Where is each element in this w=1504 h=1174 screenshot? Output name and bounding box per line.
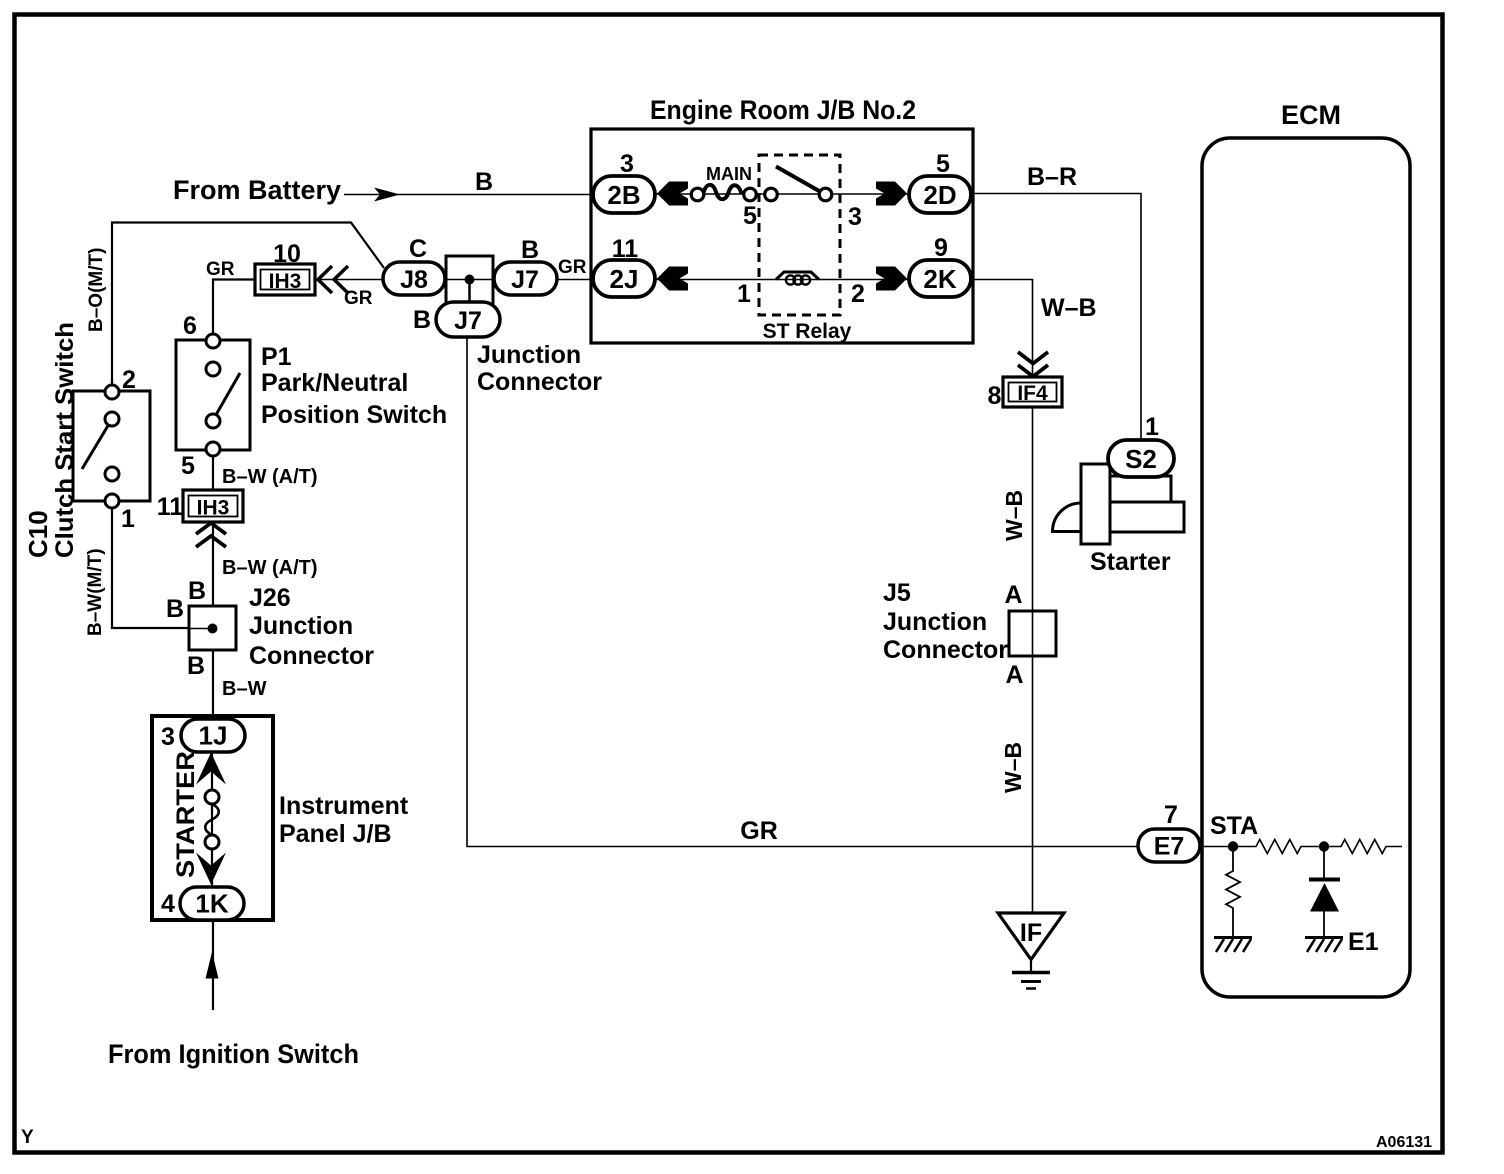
junction connector J7 bottom [436, 302, 500, 337]
starter body upper block [1110, 476, 1171, 502]
svg-text:Connector: Connector [249, 642, 374, 670]
svg-text:GR: GR [740, 817, 778, 845]
relay contact [765, 167, 832, 201]
svg-text:B: B [187, 652, 205, 680]
connector 2J [593, 260, 655, 297]
svg-text:GR: GR [206, 259, 235, 280]
svg-text:E1: E1 [1348, 928, 1379, 956]
svg-text:Clutch Start Switch: Clutch Start Switch [51, 322, 79, 558]
svg-text:From Ignition Switch: From Ignition Switch [108, 1039, 359, 1069]
svg-text:Instrument: Instrument [279, 792, 409, 820]
ground triangle IF [998, 913, 1064, 960]
clutch switch pin 2 terminal [105, 385, 119, 399]
junction drop wire [468, 280, 471, 304]
svg-text:2B: 2B [607, 180, 640, 210]
svg-text:8: 8 [988, 382, 1002, 410]
node STA [1228, 841, 1238, 851]
node E1 branch [1319, 841, 1329, 851]
connector IH3 pin 10 [255, 264, 315, 295]
instrument panel J/B box [152, 716, 273, 920]
svg-text:P1: P1 [261, 343, 292, 371]
svg-text:J5: J5 [883, 579, 911, 607]
svg-text:A06131: A06131 [1376, 1134, 1432, 1151]
clutch start switch C10 box [73, 391, 150, 501]
svg-text:From Battery: From Battery [173, 175, 341, 205]
ECM internal line with resistors [1200, 840, 1402, 854]
G4: right side (ECM, starter, J5, IF) [883, 100, 1410, 997]
svg-text:J8: J8 [400, 266, 428, 294]
svg-text:GR: GR [344, 288, 373, 309]
wire stub into J26 [189, 628, 213, 630]
svg-text:B: B [166, 595, 184, 623]
svg-text:Position Switch: Position Switch [261, 401, 447, 429]
harness chevrons left of J8 [318, 266, 348, 293]
wire From Battery to 2B [344, 194, 593, 196]
svg-text:Junction: Junction [249, 612, 353, 640]
svg-text:STA: STA [1210, 812, 1258, 840]
P1 contact lower [206, 414, 220, 428]
svg-text:3: 3 [161, 723, 175, 751]
svg-text:E7: E7 [1154, 833, 1185, 861]
junction connector square [446, 256, 493, 304]
wire J7 to 2J [557, 279, 593, 281]
wire IH3-10 to J8 [315, 279, 383, 281]
svg-text:3: 3 [620, 150, 634, 178]
svg-text:J26: J26 [249, 584, 291, 612]
svg-text:STARTER: STARTER [172, 751, 200, 878]
svg-text:Junction: Junction [477, 341, 581, 369]
connector 2D [909, 176, 971, 213]
wire 2K down to IF ground (W-B) [971, 280, 1033, 914]
svg-text:7: 7 [1164, 801, 1178, 829]
connector E7 [1138, 829, 1200, 862]
svg-text:3: 3 [848, 203, 862, 231]
battery feed arrowhead [374, 188, 400, 202]
clutch switch contact lower [105, 467, 119, 481]
svg-text:Panel J/B: Panel J/B [279, 820, 392, 848]
junction dot [465, 275, 475, 285]
fat arrow up [196, 753, 226, 785]
svg-text:Starter: Starter [1090, 548, 1171, 576]
starter solenoid tall block [1081, 464, 1110, 544]
connector 1K [180, 887, 244, 920]
svg-text:2: 2 [851, 280, 865, 308]
fat arrow down [196, 853, 226, 885]
junction connector J8 [383, 262, 445, 295]
wire row 2 (GR to W-B) [655, 279, 909, 281]
svg-text:B–R: B–R [1027, 163, 1077, 191]
arrow into 2J [657, 267, 688, 291]
ground below resistor [1214, 938, 1252, 953]
P1 pin 5 terminal [206, 442, 220, 456]
arrow into 2D [876, 182, 907, 206]
svg-text:2D: 2D [923, 180, 956, 210]
svg-text:B: B [475, 168, 493, 196]
P1 contact upper [206, 362, 220, 376]
svg-text:11: 11 [612, 235, 639, 263]
wire 2D to starter S2 (B-R) [971, 194, 1141, 442]
svg-text:B: B [413, 306, 431, 334]
starter body lower block [1110, 502, 1184, 532]
fuse MAIN [691, 164, 756, 201]
svg-text:ST Relay: ST Relay [763, 320, 852, 343]
svg-text:1J: 1J [199, 721, 228, 751]
ground symbol below IF [1012, 973, 1050, 989]
wire through junction square [445, 279, 494, 281]
connector S2 [1108, 440, 1174, 477]
wire from ignition switch [212, 920, 214, 1010]
relay coil [776, 272, 819, 285]
svg-text:1K: 1K [195, 889, 228, 919]
harness chevrons below IH3-11 [196, 523, 226, 547]
wire IH3-10 to P1 pin 6 [213, 280, 255, 335]
svg-text:Y: Y [21, 1127, 34, 1148]
ECM box [1202, 138, 1410, 997]
junction block box [591, 129, 973, 343]
svg-text:MAIN: MAIN [706, 164, 752, 184]
wire row 1 (B to B-R) [655, 193, 909, 195]
svg-text:B–W (A/T): B–W (A/T) [222, 557, 318, 579]
svg-text:B: B [521, 236, 539, 264]
svg-text:B–O(M/T): B–O(M/T) [86, 248, 107, 332]
svg-text:11: 11 [157, 493, 184, 521]
wire inside instrument panel [211, 751, 213, 887]
arrow into 2B [657, 182, 688, 206]
svg-text:IF4: IF4 [1017, 382, 1048, 405]
junction connector J7 right [494, 262, 557, 295]
svg-text:Engine Room J/B No.2: Engine Room J/B No.2 [650, 95, 916, 125]
svg-text:9: 9 [934, 234, 948, 262]
G3: center junction connectors J8/J7 [255, 235, 1138, 847]
svg-text:5: 5 [936, 150, 950, 178]
svg-text:W–B: W–B [1000, 742, 1026, 793]
svg-text:2J: 2J [610, 264, 639, 294]
svg-text:C10: C10 [23, 510, 53, 558]
circuit breaker STARTER [205, 790, 219, 849]
svg-text:B–W(M/T): B–W(M/T) [85, 548, 106, 636]
svg-text:5: 5 [181, 452, 195, 480]
ground below diode [1305, 938, 1343, 953]
svg-text:IH3: IH3 [197, 497, 230, 520]
wire IF to ground [1030, 960, 1032, 972]
G2: left side (clutch switch, P1, IH3, J26, instrument panel) [23, 223, 447, 1070]
P1 switch arm [209, 373, 240, 427]
svg-text:1: 1 [737, 280, 751, 308]
wire IH3-11 down to J26 [212, 522, 214, 606]
svg-text:B–W (A/T): B–W (A/T) [222, 466, 318, 488]
svg-text:1: 1 [121, 505, 135, 533]
pulldown resistor [1226, 847, 1240, 937]
arrow into 2K [876, 267, 907, 291]
wire J7 down and across to E7 (GR) [467, 337, 1138, 847]
zener diode [1309, 847, 1340, 937]
clutch switch pin 1 terminal [105, 494, 119, 508]
G1: Engine Room J/B No.2 [173, 95, 973, 343]
svg-text:C: C [409, 235, 427, 263]
svg-text:GR: GR [558, 257, 587, 278]
svg-text:S2: S2 [1125, 444, 1157, 474]
connector IH3 pin 11 [183, 490, 243, 522]
svg-text:J7: J7 [454, 307, 482, 335]
svg-text:A: A [1004, 581, 1022, 609]
svg-text:4: 4 [161, 890, 175, 918]
junction connector J26 box [189, 606, 236, 650]
svg-text:2: 2 [122, 366, 136, 394]
connector 2K [909, 260, 971, 297]
connector IF4 [1003, 377, 1062, 407]
connector 1J [181, 719, 245, 752]
svg-text:B: B [188, 577, 206, 605]
ignition feed arrowhead [206, 952, 219, 979]
P1 pin 6 terminal [206, 334, 220, 348]
wire clutch pin2 up and across to J8 [112, 223, 384, 386]
clutch switch contact upper [105, 412, 119, 426]
harness chevrons above IF4 [1018, 352, 1048, 377]
wire clutch pin1 down to J26 [112, 508, 189, 628]
connector 2B [593, 176, 655, 213]
junction connector J5 box [1009, 611, 1056, 656]
svg-text:W–B: W–B [1001, 490, 1027, 541]
clutch switch arm [82, 424, 109, 469]
svg-text:W–B: W–B [1041, 294, 1097, 322]
svg-text:2K: 2K [923, 264, 956, 294]
svg-text:Park/Neutral: Park/Neutral [261, 369, 408, 397]
svg-text:B–W: B–W [222, 678, 267, 700]
svg-text:IH3: IH3 [269, 270, 302, 293]
svg-text:5: 5 [743, 202, 757, 230]
J26 junction dot [208, 624, 218, 634]
svg-text:IF: IF [1020, 919, 1042, 947]
wire P1 pin5 to IH3-11 [212, 456, 214, 490]
svg-text:Junction: Junction [883, 608, 987, 636]
svg-text:6: 6 [183, 312, 197, 340]
P1 park/neutral position switch box [176, 340, 250, 450]
svg-text:Connector: Connector [477, 368, 602, 396]
ST relay dashed box [759, 155, 840, 315]
svg-text:1: 1 [1145, 413, 1159, 441]
wire J26 to instrument panel [212, 650, 214, 716]
svg-text:J7: J7 [511, 266, 539, 294]
svg-text:ECM: ECM [1281, 100, 1341, 130]
starter nose dome [1053, 503, 1082, 532]
svg-text:Connector: Connector [883, 636, 1008, 664]
svg-text:A: A [1005, 661, 1023, 689]
